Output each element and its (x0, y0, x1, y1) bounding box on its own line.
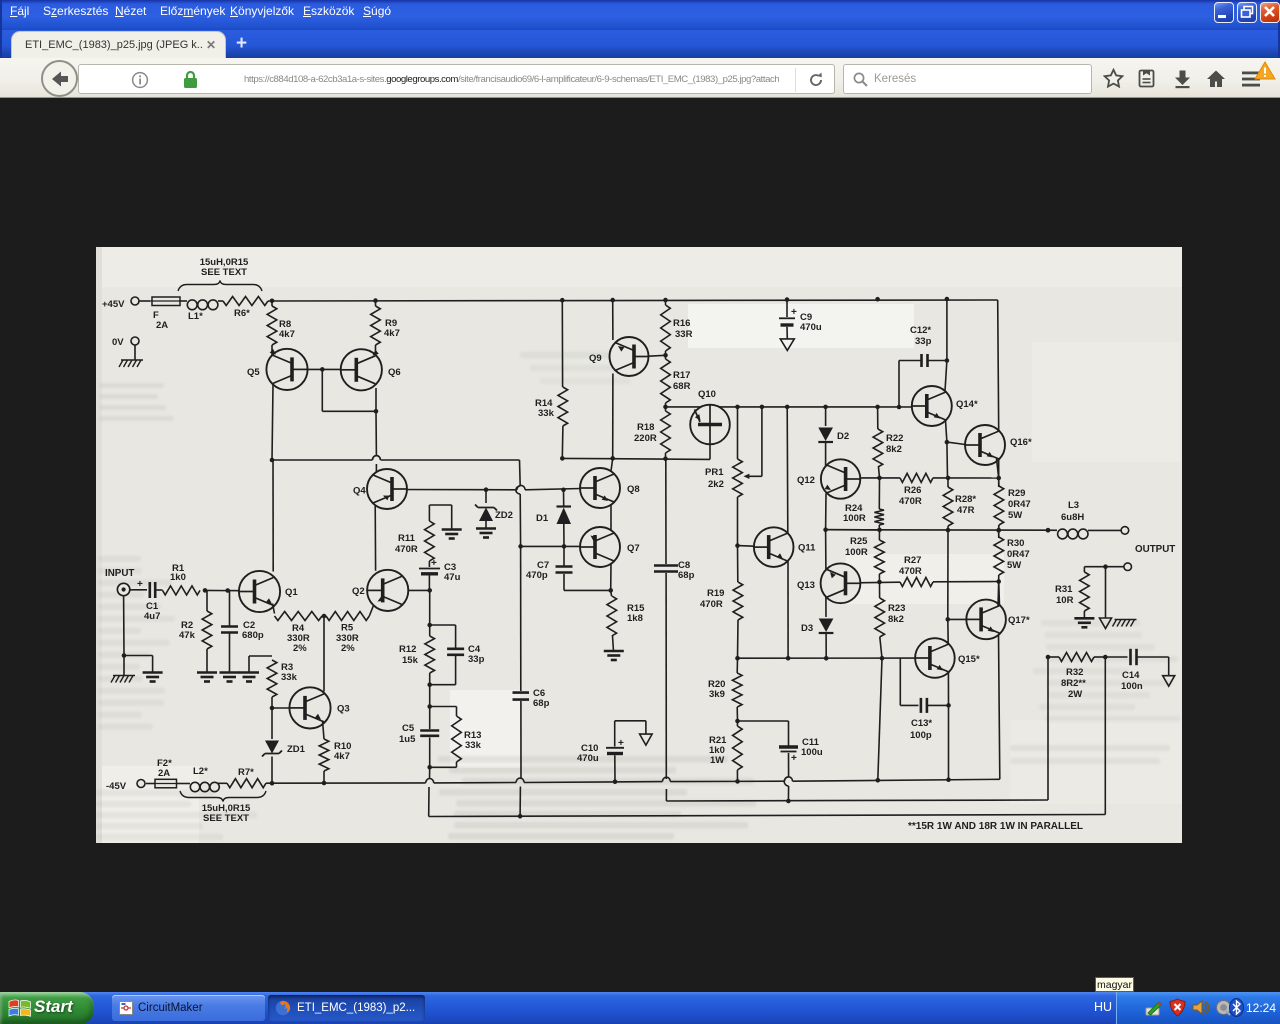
svg-text:SEE TEXT: SEE TEXT (201, 267, 247, 278)
svg-text:R11: R11 (398, 533, 416, 544)
wire: Q10 collector to bus y458 (709, 444, 711, 459)
svg-text:R19: R19 (707, 588, 724, 599)
wire: output bus y=530 from Q12 emitter to L3 node (823, 527, 1050, 532)
inductor L1* (187, 300, 218, 322)
svg-text:Q4: Q4 (353, 486, 366, 497)
svg-text:Q3: Q3 (337, 704, 350, 715)
svg-text:33p: 33p (468, 654, 485, 665)
svg-text:L2*: L2* (193, 766, 208, 777)
svg-text:R18: R18 (637, 422, 654, 433)
wire: Q16 collector to right bus (998, 431, 999, 432)
home icon (1205, 68, 1227, 89)
capacitor C2 680p (221, 591, 264, 673)
svg-text:8k2: 8k2 (888, 614, 904, 625)
fuse F 2A (150, 297, 180, 331)
wire: R1 node to Q1 base (205, 588, 240, 593)
wire: Q5/Q6 base tie and tap (308, 367, 377, 411)
svg-text:D2: D2 (837, 431, 849, 442)
label OUTPUT (1135, 544, 1175, 555)
transistor Q2 (352, 570, 408, 611)
Windows taskbar (0, 992, 1280, 1024)
svg-text:R6*: R6* (234, 308, 250, 319)
resistor R15 1k8 (607, 590, 645, 651)
wire: feedback line y=801 from C8 column to R32 left node (666, 657, 1048, 803)
capacitor C14 100n (1105, 649, 1168, 692)
resistor R20 3k9 (708, 658, 742, 723)
diode D2 (818, 407, 849, 470)
wire: Q3 base line (272, 707, 290, 709)
capacitor C7 470p (526, 546, 611, 590)
svg-text:D3: D3 (801, 623, 813, 634)
wire: C5/R13 node down through rail to feedback line (429, 767, 430, 816)
svg-text:2k2: 2k2 (708, 479, 724, 490)
wire: feedback line y=816.5 from C5/R13 column to C14/R32 right node (429, 657, 1106, 819)
svg-text:15k: 15k (402, 655, 419, 666)
svg-text:R23: R23 (888, 603, 905, 614)
svg-text:470R: 470R (395, 544, 418, 555)
svg-text:R31: R31 (1055, 584, 1073, 595)
svg-text:+: + (618, 738, 624, 749)
language-bar pen icon (1145, 999, 1163, 1017)
svg-text:L1*: L1* (188, 311, 203, 322)
restore button (1237, 2, 1257, 23)
wire: Q8 collector to bus / Q8-Q7 / Q7 emitter to node (608, 458, 613, 592)
wire: Q16 emitter to node (997, 459, 999, 479)
svg-text:8R2**: 8R2** (1061, 678, 1086, 689)
svg-text:8k2: 8k2 (886, 444, 902, 455)
fuse F2* 2A (155, 758, 177, 788)
bookmarks list icon (1136, 68, 1157, 89)
terminal: output return (1124, 563, 1132, 571)
wire: Q14 collector to +45V rail (945, 299, 947, 391)
svg-text:Q9: Q9 (589, 353, 602, 364)
resistor R28* 47R (943, 478, 976, 530)
transistor Q10 (Vbe multiplier) (690, 389, 730, 444)
wire: Q17 base line (948, 618, 967, 620)
wire: Q6 collector down across bus to Q4 emitter (372, 388, 380, 474)
info icon (131, 71, 149, 89)
note: **15R 1W AND 18R 1W IN PARALLEL (908, 821, 1083, 832)
wire: line y=490 Q4 collector line to Q8 base with ZD2 and D1 taps (392, 485, 581, 492)
svg-text:0V: 0V (112, 337, 124, 348)
svg-text:R17: R17 (673, 370, 690, 381)
resistor R14 33k (535, 387, 568, 458)
svg-text:33p: 33p (915, 336, 932, 347)
svg-text:R5: R5 (341, 623, 354, 634)
svg-text:C13*: C13* (911, 718, 932, 729)
svg-text:R30: R30 (1007, 538, 1024, 549)
svg-text:1k8: 1k8 (627, 613, 643, 624)
ground (ZD2) (476, 529, 496, 538)
transistor Q3 (289, 687, 349, 728)
svg-text:2%: 2% (293, 643, 307, 654)
resistor R9 (371, 301, 400, 345)
zener diode ZD2 (475, 490, 513, 528)
svg-text:Q5: Q5 (247, 367, 260, 378)
label INPUT (105, 568, 134, 579)
diode D3 (801, 597, 833, 658)
svg-text:ZD1: ZD1 (287, 744, 306, 755)
diode D1 (536, 490, 571, 547)
wire: Q5 emitter to R8 (271, 345, 273, 356)
svg-text:680p: 680p (242, 630, 264, 641)
resistor R17 68R (661, 355, 691, 407)
ground (R11 hook) (442, 530, 462, 539)
capacitor C12* 33p (899, 325, 949, 407)
wire: bias bus y=407 from R17/R18 junction to Q14 base (663, 405, 926, 410)
svg-text:Q6: Q6 (388, 367, 401, 378)
terminal: +45V supply input (102, 297, 139, 310)
svg-text:R16: R16 (673, 318, 690, 329)
svg-text:2W: 2W (1068, 689, 1082, 700)
terminal: 0V (112, 337, 139, 360)
svg-text:33k: 33k (281, 672, 298, 683)
wire: Q5 collector to mirror bus (272, 385, 273, 460)
brace and label 15uH,0R15 SEE TEXT (top) (178, 257, 262, 291)
ground (C9 triangle) (780, 339, 794, 351)
wire: Q9 base to R16/R17 junction (649, 353, 668, 358)
svg-text:Q7: Q7 (627, 543, 640, 554)
wire: Q9 collector to bus (612, 374, 614, 459)
wire: R24/R25 junction line (826, 529, 880, 531)
capacitor C1 4u7 (130, 579, 163, 622)
https lock icon (182, 70, 199, 90)
security shield icon (1169, 998, 1186, 1017)
wire: -45V bottom supply rail (146, 777, 1000, 786)
wire: Q6 emitter to R9 (375, 345, 377, 356)
capacitor C5 1u5 (399, 685, 439, 770)
svg-text:R32: R32 (1066, 667, 1083, 678)
wire: R4/R5 node down to Q3 base area (323, 616, 325, 692)
brace and label 15uH,0R15 SEE TEXT (bottom) (180, 791, 266, 824)
wire: Q16 base line (947, 442, 965, 444)
resistor R30 0R47 5W (994, 530, 1030, 575)
bookmark star icon (1103, 68, 1124, 89)
resistor R8 (267, 301, 295, 345)
svg-text:Q8: Q8 (627, 484, 640, 495)
ground (0V hatched) (119, 360, 143, 367)
svg-text:470R: 470R (899, 496, 922, 507)
wire: Q4 collector down to Q2 collector (374, 503, 376, 571)
svg-text:R27: R27 (904, 555, 921, 566)
svg-text:470u: 470u (800, 322, 822, 333)
resistor R16 33R (661, 300, 693, 355)
svg-text:33R: 33R (675, 329, 693, 340)
svg-text:470p: 470p (526, 570, 548, 581)
transistor Q16 (965, 425, 1032, 465)
svg-text:470u: 470u (577, 753, 599, 764)
zener diode ZD1 (262, 708, 306, 783)
ground (input hatched) (111, 676, 135, 683)
svg-text:4k7: 4k7 (384, 328, 400, 339)
svg-text:5W: 5W (1007, 560, 1021, 571)
svg-text:2A: 2A (158, 768, 170, 779)
resistor R26 470R (899, 473, 933, 507)
resistor R7* (227, 767, 266, 788)
wire: Q17 collector to node (997, 582, 1000, 607)
svg-text:68p: 68p (678, 570, 695, 581)
transistor Q7 (580, 527, 640, 567)
wire: Q2 base to C3 column (408, 588, 432, 593)
transistor Q13 (797, 563, 860, 603)
ground (output hatched) (1113, 620, 1137, 627)
svg-text:Q14*: Q14* (956, 399, 978, 410)
wire: Q11 collector up to bias bus (786, 407, 789, 533)
wire: Q1 collector up to mirror node (272, 460, 274, 572)
Start button (0, 992, 94, 1024)
capacitor C13* 100p (900, 658, 948, 741)
svg-text:1k0: 1k0 (170, 572, 186, 583)
svg-text:0R47: 0R47 (1008, 499, 1031, 510)
svg-text:OUTPUT: OUTPUT (1135, 544, 1175, 555)
svg-text:R26: R26 (904, 485, 921, 496)
capacitor C3 (electrolytic 47u) (419, 558, 461, 590)
wire: line y=478 Q12 base / R26 / Q16 emitter node (843, 476, 999, 481)
svg-text:SEE TEXT: SEE TEXT (203, 813, 249, 824)
transistor Q9 (589, 337, 649, 376)
svg-text:68R: 68R (673, 381, 691, 392)
wire: Q1 emitter to R4 (273, 604, 275, 614)
svg-text:Q16*: Q16* (1010, 437, 1032, 448)
capacitor C4 33p (430, 625, 485, 685)
ground (R15) (604, 651, 624, 660)
wire: +45V top supply rail (139, 297, 998, 303)
wire: R28 column / Q17 base / Q15 collector / C13 / rail column (946, 530, 951, 780)
navigation toolbar (0, 58, 1280, 98)
wire: Q3 emitter to R10 (323, 721, 325, 740)
wire: Q11 base to PR1 node (738, 545, 755, 548)
svg-text:33k: 33k (538, 408, 555, 419)
resistor R18 220R (634, 407, 670, 459)
svg-text:1u5: 1u5 (399, 734, 416, 745)
wire: R23 column to -45V rail (878, 658, 882, 780)
svg-text:D1: D1 (536, 513, 549, 524)
back button (41, 60, 78, 97)
capacitor C8 68p (654, 459, 695, 801)
transistor Q17 (966, 600, 1030, 640)
capacitor C10 (electrolytic 470u) (577, 721, 646, 782)
language tooltip (1095, 977, 1134, 992)
svg-text:+45V: +45V (102, 299, 125, 310)
capacitor C9 (electrolytic 470u) (779, 300, 822, 339)
svg-text:INPUT: INPUT (105, 568, 134, 579)
wire: Q11 emitter down to Q15 base bus (787, 561, 789, 658)
wire: Q15 base bus y=658 (735, 656, 915, 661)
ground (C10 triangle) (640, 734, 653, 745)
download arrow icon (1172, 68, 1193, 89)
svg-text:Q12: Q12 (797, 475, 815, 486)
wire: right bus vertical from +45V rail corner down to -45V rail (Q16/Q17 collector-emitter column) (996, 300, 1001, 779)
wire: Q2 emitter to R5 (369, 606, 373, 617)
system tray (1116, 992, 1280, 1024)
resistor R19 470R (700, 546, 743, 659)
svg-text:**15R 1W AND 18R 1W IN PARALLE: **15R 1W AND 18R 1W IN PARALLEL (908, 821, 1083, 832)
svg-text:470R: 470R (899, 566, 922, 577)
resistor R31 10R (1055, 572, 1089, 618)
close button (1260, 2, 1280, 23)
ground (C2) (220, 673, 240, 682)
transistor Q14 (912, 386, 978, 426)
transistor Q5 (247, 349, 308, 390)
transistor Q8 (580, 468, 640, 508)
svg-text:470R: 470R (700, 599, 723, 610)
svg-text:Q1: Q1 (285, 587, 298, 598)
wire: mirror bus at y=460 from Q5 collector to corner, down to Q7 base line (270, 456, 523, 549)
resistor R32 8R2** 2W (1046, 653, 1108, 701)
svg-text:47u: 47u (444, 572, 461, 583)
warning badge on menu (1254, 61, 1276, 80)
terminal: -45V supply input (106, 780, 145, 793)
ground (input) (143, 673, 163, 682)
svg-text:R22: R22 (886, 433, 903, 444)
svg-text:100R: 100R (845, 547, 868, 558)
svg-text:ZD2: ZD2 (495, 510, 513, 521)
svg-text:220R: 220R (634, 433, 657, 444)
svg-text:47R: 47R (957, 505, 975, 516)
svg-text:R12: R12 (399, 644, 416, 655)
terminal: input socket (117, 583, 129, 595)
svg-text:68p: 68p (533, 698, 550, 709)
resistor R23 8k2 (875, 582, 906, 658)
transistor Q12 (797, 459, 860, 498)
capacitor C6 68p (513, 546, 550, 816)
svg-text:Q13: Q13 (797, 580, 815, 591)
wire: line y=546 from C6 column to Q7 base, D1/C7 tap (521, 544, 580, 549)
ground (R31) (1074, 618, 1094, 627)
svg-text:0R47: 0R47 (1007, 549, 1030, 560)
resistor R29 0R47 5W (994, 478, 1031, 530)
resistor R10 4k7 (319, 739, 351, 783)
svg-text:47k: 47k (179, 630, 196, 641)
svg-text:Q11: Q11 (798, 543, 816, 554)
tab bar (0, 30, 1280, 58)
svg-text:Q17*: Q17* (1008, 615, 1030, 626)
resistor R24 100R (843, 478, 884, 530)
wire: R11 hook to ground (429, 505, 451, 529)
svg-text:C12*: C12* (910, 325, 931, 336)
window title / menu bar (0, 0, 1280, 30)
svg-text:3k9: 3k9 (709, 689, 725, 700)
svg-text:PR1: PR1 (705, 467, 724, 478)
resistor R13 33k (430, 707, 482, 768)
wire: Q9 emitter to +45V rail (612, 300, 614, 340)
terminal: output hot (1121, 527, 1129, 535)
resistor R22 8k2 (873, 407, 903, 478)
resistor R3 33k (249, 656, 298, 710)
svg-text:100p: 100p (910, 730, 932, 741)
svg-text:R25: R25 (850, 536, 868, 547)
wire: line y=582 Q13 base / R27 / R30 bottom (843, 580, 999, 585)
svg-text:+: + (791, 753, 797, 764)
transistor Q1 (239, 571, 298, 612)
resistor R11 (395, 521, 434, 561)
svg-text:Q10: Q10 (698, 389, 716, 400)
svg-text:1W: 1W (710, 755, 724, 766)
svg-text:33k: 33k (465, 740, 482, 751)
svg-text:6u8H: 6u8H (1061, 512, 1084, 523)
svg-text:10R: 10R (1056, 595, 1074, 606)
minimize button (1214, 2, 1234, 23)
potentiometer PR1 2k2 (705, 407, 762, 548)
inductor L3 6u8H (1046, 500, 1122, 539)
resistor R2 (179, 590, 212, 672)
svg-text:C5: C5 (402, 723, 415, 734)
svg-text:2%: 2% (341, 643, 355, 654)
wire: R14 column (561, 300, 563, 387)
ground (output triangle) (1100, 618, 1112, 629)
reload icon (807, 71, 825, 89)
svg-text:+: + (431, 558, 437, 569)
inductor L2* (190, 766, 219, 792)
svg-text:R7*: R7* (238, 767, 254, 778)
resistor R6* (223, 297, 268, 320)
transistor Q15 (915, 638, 980, 678)
svg-text:-45V: -45V (106, 781, 127, 792)
svg-text:L3: L3 (1068, 500, 1079, 511)
transistor Q11 (754, 527, 816, 567)
CircuitMaker taskbar button (112, 995, 265, 1021)
svg-text:C14: C14 (1122, 670, 1140, 681)
ground (R2) (197, 673, 217, 682)
svg-text:R29: R29 (1008, 488, 1025, 499)
resistor R21 1k0 1W (709, 721, 742, 781)
resistor R27 470R (899, 555, 933, 587)
resistor R1 (163, 563, 208, 595)
svg-text:100R: 100R (843, 513, 866, 524)
svg-text:+: + (137, 579, 143, 590)
speaker icon (1192, 999, 1210, 1016)
wire: input terminal ground leg (122, 596, 153, 675)
svg-text:R28*: R28* (955, 494, 976, 505)
bluetooth icon (1229, 998, 1244, 1017)
svg-text:5W: 5W (1008, 510, 1022, 521)
resistor R5 330R 2% (326, 612, 369, 655)
wire: Q12 emitter node to Q13 emitter (825, 494, 827, 571)
transistor Q6 (341, 349, 401, 390)
svg-text:2A: 2A (156, 320, 168, 331)
svg-text:Q2: Q2 (352, 586, 365, 597)
resistor R25 100R (845, 530, 884, 582)
resistor R4 330R 2% (275, 612, 327, 655)
svg-text:4u7: 4u7 (144, 611, 160, 622)
resistor R12 15k (399, 590, 435, 687)
gray knob icon (1215, 999, 1232, 1016)
active Firefox taskbar button (268, 995, 425, 1021)
svg-text:4k7: 4k7 (334, 751, 350, 762)
transistor Q4 (353, 469, 407, 509)
wire: Q14 emitter down, Q16 base node (945, 421, 950, 478)
capacitor C11 (electrolytic 100u) (738, 721, 823, 801)
wire: bus y=458 Q9/R18/Q10 collector bus (560, 456, 710, 461)
ground (R3 hook) (239, 673, 259, 682)
svg-text:100u: 100u (801, 747, 823, 758)
svg-text:4k7: 4k7 (279, 329, 295, 340)
svg-text:Q15*: Q15* (958, 654, 980, 665)
svg-text:+: + (791, 307, 797, 318)
hamburger menu icon (1240, 69, 1262, 89)
wire: output return to grounds (1084, 564, 1124, 618)
ground (C14 triangle) (1163, 676, 1175, 687)
svg-text:100n: 100n (1121, 681, 1143, 692)
